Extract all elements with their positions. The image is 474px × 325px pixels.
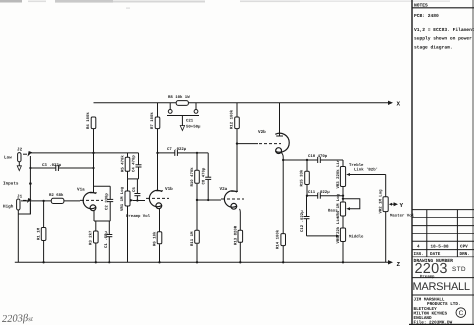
svg-text:R5 470k: R5 470k xyxy=(121,155,126,172)
triode V1a xyxy=(77,128,103,211)
svg-text:R15 33k: R15 33k xyxy=(300,169,305,186)
svg-text:Preamp: Preamp xyxy=(420,275,435,280)
wire V2a plate to V2b grid (direct coupling) xyxy=(236,142,281,144)
svg-text:C11 .022µ: C11 .022µ xyxy=(308,190,330,195)
svg-text:X: X xyxy=(397,101,401,108)
resistor R15 33k xyxy=(300,159,310,196)
svg-text:C7 .022µ: C7 .022µ xyxy=(167,147,187,152)
svg-text:Master Vol: Master Vol xyxy=(390,214,415,219)
resistor R13 820R xyxy=(233,209,242,262)
capacitor C12 .022u xyxy=(300,196,337,236)
svg-text:ISS.: ISS. xyxy=(414,252,424,257)
svg-text:STD: STD xyxy=(452,266,466,273)
resistor R3 2k7 xyxy=(89,221,99,262)
wire tone stack feed xyxy=(283,159,318,161)
svg-text:C21: C21 xyxy=(186,119,194,124)
resistor R4 100k xyxy=(86,112,96,129)
svg-text:DRN.: DRN. xyxy=(460,252,470,257)
svg-text:DATE: DATE xyxy=(430,252,441,257)
resistor R5 470k xyxy=(121,153,130,179)
capacitor C3 .022u xyxy=(30,163,93,171)
triode V2a xyxy=(220,128,245,209)
svg-text:Y: Y xyxy=(400,202,404,209)
svg-text:R13 820R: R13 820R xyxy=(233,225,238,245)
svg-text:18-5-88: 18-5-88 xyxy=(431,244,449,249)
svg-text:C12 .022µ: C12 .022µ xyxy=(300,210,305,232)
connector link left of R8 xyxy=(168,103,172,114)
svg-text:R7 100k: R7 100k xyxy=(150,112,155,129)
capacitor C7 .022u coupling xyxy=(156,147,208,156)
capacitor C10 470p xyxy=(308,154,343,163)
capacitor C2 330p (plate snubber) xyxy=(94,186,114,221)
copyright symbol xyxy=(456,308,466,318)
potentiometer VR3 220k Lin (Treble) xyxy=(336,159,364,188)
svg-text:VR3 220k Lin: VR3 220k Lin xyxy=(336,159,341,188)
wire cathode junction V1a xyxy=(94,211,110,222)
wire high input line xyxy=(21,200,51,202)
svg-text:R11 1M: R11 1M xyxy=(190,231,195,246)
wire wiper to V1b grid xyxy=(133,200,145,202)
svg-text:C: C xyxy=(459,310,464,317)
capacitor C5 bright xyxy=(132,179,141,201)
svg-text:V1a: V1a xyxy=(77,188,85,193)
svg-text:Bass: Bass xyxy=(328,209,338,214)
address block xyxy=(414,297,461,325)
resistor R12 100k xyxy=(230,103,240,129)
ground rail to Z xyxy=(15,260,393,264)
resistor R2 68k xyxy=(49,193,80,203)
notes text xyxy=(414,2,474,50)
svg-text:V1b: V1b xyxy=(165,186,173,192)
potentiometer VR5 22k Lin (Middle) xyxy=(336,216,364,262)
resistor R1 1M xyxy=(37,201,46,262)
drawing number xyxy=(414,258,467,280)
svg-text:C3 .022µ: C3 .022µ xyxy=(42,163,62,168)
svg-text:C10 470p: C10 470p xyxy=(308,154,328,159)
svg-text:R2 68k: R2 68k xyxy=(49,193,64,198)
svg-text:VR5 22k Lin: VR5 22k Lin xyxy=(336,216,341,243)
svg-text:R10 470k: R10 470k xyxy=(190,167,195,187)
connector link right of R8 xyxy=(194,103,198,114)
svg-text:Preamp Vol: Preamp Vol xyxy=(126,214,151,219)
svg-text:High: High xyxy=(3,204,14,210)
resistor R6 10k xyxy=(153,209,162,263)
resistor R11 1M xyxy=(190,200,199,262)
wire junction to V2a grid xyxy=(196,199,221,201)
svg-text:PCB: 2480: PCB: 2480 xyxy=(414,13,439,19)
triode V1b xyxy=(146,128,173,209)
capacitor C4 470p xyxy=(132,153,142,179)
svg-text:stage diagram.: stage diagram. xyxy=(414,44,453,50)
svg-text:Treble: Treble xyxy=(349,163,364,168)
svg-text:R1 1M: R1 1M xyxy=(37,227,42,240)
svg-text:C8 470p: C8 470p xyxy=(202,167,207,184)
wire jack sleeve to ground rail xyxy=(17,210,19,262)
resistor R14 100k xyxy=(276,229,286,249)
potentiometer VR4 1M Log (Bass) xyxy=(328,193,360,218)
scan smudge top edge xyxy=(0,0,450,9)
svg-text:R12 100k: R12 100k xyxy=(230,109,235,129)
svg-text:Z: Z xyxy=(397,261,401,268)
input jack J2 (Low) xyxy=(4,148,32,171)
panel frame xyxy=(412,0,474,325)
svg-text:V1,2 = ECC83. Filament: V1,2 = ECC83. Filament xyxy=(414,27,474,33)
svg-text:C4 470p: C4 470p xyxy=(132,155,137,172)
title block table xyxy=(412,210,474,295)
junction node plate V1a xyxy=(92,152,94,154)
capacitor C8 470p xyxy=(202,153,212,200)
wire divider tie xyxy=(128,178,139,180)
wire coupling line to volume divider xyxy=(94,152,139,154)
svg-text:V2b: V2b xyxy=(258,129,266,135)
svg-text:J2: J2 xyxy=(17,148,23,153)
capacitor C1 .68u xyxy=(104,221,112,262)
capacitor C11 .022u xyxy=(306,190,343,199)
resistor R7 100k xyxy=(150,103,160,129)
resistor R10 470k xyxy=(190,152,199,200)
svg-text:VR2 1M Log: VR2 1M Log xyxy=(378,189,383,214)
input jack J1 (High) xyxy=(3,195,32,215)
wire V2b cathode node xyxy=(281,153,284,263)
potentiometer VR2 1M Log (Master Vol) xyxy=(378,189,414,262)
svg-text:R14 100k: R14 100k xyxy=(276,229,281,249)
svg-text:C5: C5 xyxy=(132,187,137,192)
B+ supply rail to X xyxy=(94,101,394,105)
svg-text:Middle: Middle xyxy=(349,235,364,240)
capacitor C21 50+50u with ground arrow xyxy=(167,116,201,131)
bottom edge bar xyxy=(409,324,474,325)
svg-text:R3 2k7: R3 2k7 xyxy=(89,230,94,245)
svg-text:C2 330p: C2 330p xyxy=(105,193,110,210)
svg-text:50+50µ: 50+50µ xyxy=(186,125,201,130)
svg-text:VR4 1M Log: VR4 1M Log xyxy=(336,193,341,218)
issue row xyxy=(414,244,470,257)
potentiometer VR1 1M Log (Preamp Vol) xyxy=(120,179,151,262)
svg-text:R8 10k 1W: R8 10k 1W xyxy=(168,95,190,100)
svg-text:R4 100k: R4 100k xyxy=(86,112,91,129)
wire treble bottom to bass xyxy=(342,187,344,203)
svg-text:Low: Low xyxy=(4,156,12,161)
wire treble wiper link to master xyxy=(349,168,386,197)
wire low-jack line xyxy=(29,156,31,214)
svg-text:supply shown on power: supply shown on power xyxy=(414,36,472,42)
svg-text:C1 .68µ: C1 .68µ xyxy=(104,231,109,248)
triode V2b (cathode follower) xyxy=(258,103,289,154)
svg-text:Inputs: Inputs xyxy=(3,182,19,187)
svg-text:Link 'B2b': Link 'B2b' xyxy=(354,168,378,173)
svg-text:V2a: V2a xyxy=(220,187,228,192)
svg-text:4: 4 xyxy=(417,244,420,249)
svg-text:CPV: CPV xyxy=(460,244,468,249)
svg-text:R6 10k: R6 10k xyxy=(153,231,158,246)
svg-text:MARSHALL: MARSHALL xyxy=(413,281,472,293)
svg-text:VR1 1M Log: VR1 1M Log xyxy=(120,186,125,211)
svg-text:NOTES: NOTES xyxy=(414,2,428,8)
resistor R8 10k 1W (rail dropper) xyxy=(168,95,190,105)
